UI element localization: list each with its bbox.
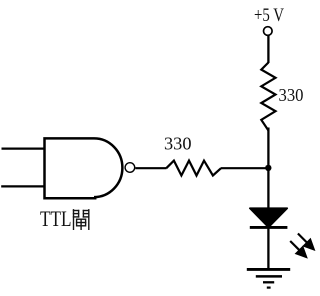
svg-text:+5 V: +5 V — [254, 6, 285, 26]
svg-text:TTL: TTL — [40, 206, 72, 231]
svg-text:330: 330 — [164, 133, 192, 153]
svg-text:330: 330 — [279, 85, 304, 105]
